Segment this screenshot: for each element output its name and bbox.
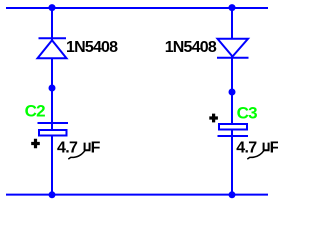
label: C3 value micro sign — [263, 143, 270, 151]
svg-text:F: F — [91, 139, 101, 156]
wire: bottom bus from left end to right end — [6, 194, 268, 196]
wire: right branch vertical (top bus through D? C3 to bottom bus) — [231, 7, 233, 196]
polarity plus sign of C3 — [209, 114, 218, 123]
wire: left branch vertical (top bus through D? C2 to bottom bus) — [51, 7, 53, 196]
svg-text:1N5408: 1N5408 — [165, 39, 217, 56]
capacitor C3: top plate (positive, hollow box) — [219, 124, 247, 130]
diode D2 (right, 1N5408): triangle anode pointing down — [218, 39, 249, 57]
svg-text:C3: C3 — [237, 104, 257, 123]
node dot: top of left branch — [49, 4, 56, 11]
capacitor C2: bottom plate (positive, hollow box) — [39, 130, 67, 136]
node dot: bottom of left branch — [49, 191, 56, 198]
svg-text:C2: C2 — [25, 102, 45, 121]
polarity plus sign of C2 — [31, 139, 40, 148]
svg-text:F: F — [270, 139, 278, 156]
node dot: left branch between diode and C2 — [49, 85, 56, 92]
svg-text:1N5408: 1N5408 — [66, 39, 118, 56]
wire: top bus from left end to right end — [6, 7, 268, 9]
diode D2 (right, 1N5408): cathode bar — [217, 57, 249, 59]
diode D1 (left, 1N5408): cathode bar — [39, 37, 67, 39]
capacitor C2: top plate (negative, line) — [38, 122, 69, 124]
label: C2 value micro sign — [84, 143, 91, 151]
node dot: top of right branch — [229, 4, 236, 11]
node dot: bottom of right branch — [229, 191, 236, 198]
node dot: right branch between diode and C3 — [229, 89, 236, 96]
diode D1 (left, 1N5408): triangle anode pointing up — [38, 40, 67, 58]
svg-text:4.7: 4.7 — [57, 139, 78, 156]
capacitor C3: bottom plate (negative, line) — [218, 135, 249, 137]
svg-text:4.7: 4.7 — [236, 139, 257, 156]
